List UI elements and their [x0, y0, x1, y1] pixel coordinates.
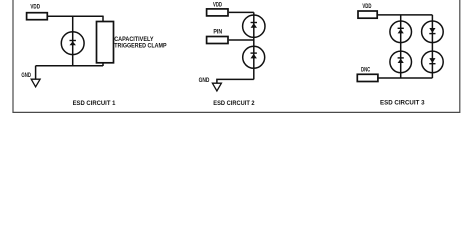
wire stub clamp bottom (circuit 1): [102, 63, 104, 66]
wire top rail (circuit 3): [377, 14, 432, 16]
svg-text:VDD: VDD: [30, 4, 40, 10]
wire to ground corner (circuit 2): [217, 79, 254, 83]
pin box VDD (circuit 1): [27, 13, 48, 20]
svg-text:GND: GND: [199, 78, 210, 84]
wire right column (circuit 3): [431, 15, 433, 78]
diode D2A symbol (circuit 2): [251, 22, 257, 28]
wire left column (circuit 3): [400, 15, 402, 78]
ground symbol (circuit 2): [212, 83, 221, 91]
wire stub to clamp top (circuit 1): [102, 16, 104, 22]
wire PIN to node (circuit 2): [229, 39, 254, 41]
wire bottom rail (circuit 1): [36, 65, 103, 67]
svg-text:ESD CIRCUIT 1: ESD CIRCUIT 1: [73, 100, 116, 107]
diode D2B symbol (circuit 2): [251, 52, 257, 58]
label capacitively triggered clamp (circuit 1): [114, 36, 167, 49]
figure frame border: [13, 0, 460, 112]
wire GND stub (circuit 1): [35, 66, 37, 80]
diode D3D symbol down (circuit 3): [429, 58, 435, 64]
svg-text:VDD: VDD: [362, 4, 371, 10]
diode D1 symbol (circuit 1): [70, 40, 76, 46]
diode D3B symbol down (circuit 3): [429, 28, 435, 34]
pin box VDD (circuit 3): [358, 11, 377, 18]
svg-text:PIN: PIN: [213, 30, 222, 36]
svg-text:ESD CIRCUIT 2: ESD CIRCUIT 2: [213, 100, 255, 107]
ground symbol (circuit 1): [31, 79, 40, 87]
diode D3C circle bottom-left (circuit 3): [390, 51, 412, 73]
svg-text:VDD: VDD: [213, 2, 222, 8]
diode D3A symbol up (circuit 3): [398, 28, 404, 34]
svg-text:GND: GND: [21, 73, 31, 79]
svg-text:DNC: DNC: [361, 67, 371, 73]
diode D3A circle top-left (circuit 3): [390, 21, 412, 43]
svg-text:ESD CIRCUIT 3: ESD CIRCUIT 3: [380, 100, 425, 107]
diode D3B circle top-right (circuit 3): [422, 21, 444, 43]
diode D2B circle (circuit 2): [243, 46, 265, 68]
wire bottom rail (circuit 3): [378, 77, 433, 79]
wire VDD to node (circuit 2): [229, 11, 254, 13]
diode D1 circle (circuit 1): [61, 32, 84, 55]
diode D2A circle (circuit 2): [243, 15, 265, 37]
svg-text:TRIGGERED CLAMP: TRIGGERED CLAMP: [114, 42, 167, 49]
wire VDD rail (circuit 1): [48, 15, 104, 17]
wire diode branch (circuit 1): [72, 16, 74, 65]
diode D3C symbol up (circuit 3): [398, 57, 404, 63]
pin box PIN (circuit 2): [207, 37, 228, 44]
diode D3D circle bottom-right (circuit 3): [422, 51, 444, 73]
pin box DNC (circuit 3): [357, 74, 378, 81]
clamp box X1 (circuit 1): [97, 22, 114, 63]
pin box VDD (circuit 2): [207, 9, 228, 16]
wire vertical column (circuit 2): [253, 12, 255, 79]
